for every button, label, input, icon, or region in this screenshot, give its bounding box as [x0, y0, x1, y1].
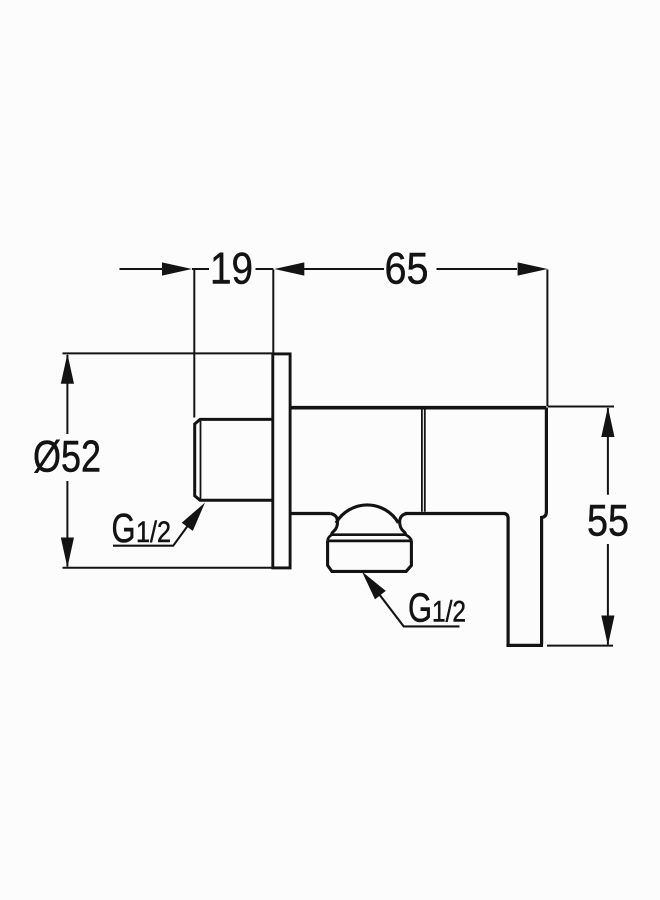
- svg-text:19: 19: [210, 244, 253, 293]
- svg-text:65: 65: [385, 244, 429, 293]
- svg-text:G: G: [408, 585, 432, 631]
- svg-text:1/2: 1/2: [136, 516, 171, 549]
- svg-text:Ø52: Ø52: [33, 432, 101, 481]
- svg-text:1/2: 1/2: [432, 596, 466, 629]
- svg-text:55: 55: [587, 497, 629, 546]
- svg-text:G: G: [112, 505, 136, 551]
